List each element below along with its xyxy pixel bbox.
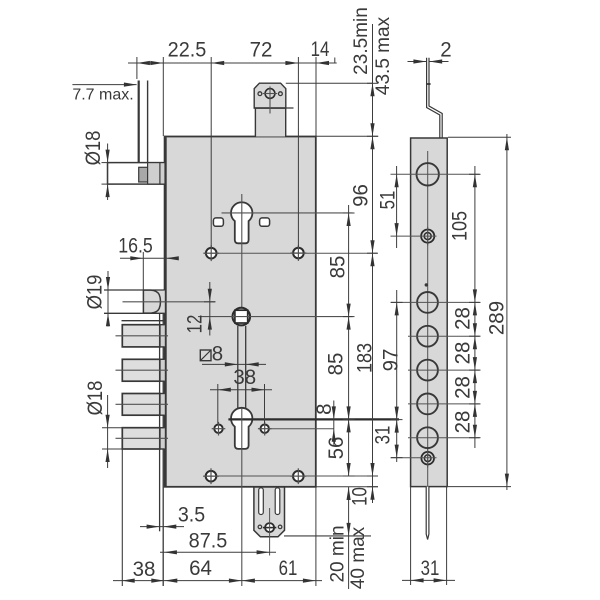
dimension chain 105/28x4 <box>474 166 476 448</box>
svg-text:183: 183 <box>353 343 377 373</box>
dimension 2 (strip) <box>408 61 427 63</box>
latch bolt stem (top) <box>255 108 285 137</box>
latch D-bolt centerline <box>123 301 216 303</box>
svg-text:16.5: 16.5 <box>118 234 153 258</box>
faceplate bolt hole circle 3 <box>417 360 438 381</box>
keyhole vertical centerline (upper) <box>241 194 243 326</box>
dimension 51 <box>396 166 398 248</box>
extension lines faceplate width <box>410 487 412 585</box>
deadbolt 2 <box>160 359 165 381</box>
dimension chain 85/85/56 <box>348 205 350 476</box>
svg-text:31: 31 <box>421 556 440 580</box>
follower horizontal centerline <box>198 316 353 318</box>
svg-text:28: 28 <box>451 342 475 365</box>
dimension square-8 spindle channel <box>202 363 266 365</box>
faceplate top circle (latch cylinder hole) <box>417 163 439 185</box>
follower square-hole (8mm) circle <box>233 308 251 326</box>
lower ring screw centerline <box>391 457 437 459</box>
dimension 12 <box>209 282 211 336</box>
upper keyhole horizontal centerline <box>222 212 353 214</box>
lower screws extension to 8-dim <box>269 428 334 430</box>
faceplate bolt hole circle 4 <box>417 394 438 415</box>
faceplate vertical centerline <box>427 151 429 486</box>
extension line screws left (72) <box>210 57 212 247</box>
escutcheon bar edge line (inner, top-left) <box>147 81 149 163</box>
dimension 3.5 <box>140 526 184 528</box>
svg-text:87.5: 87.5 <box>189 529 228 553</box>
bolt hole top edge line <box>122 320 165 322</box>
faceplate edge lines between bolts (x=159.6) <box>159 313 161 324</box>
square spindle pin below faceplate <box>426 487 429 540</box>
svg-text:7.7 max.: 7.7 max. <box>72 87 133 104</box>
lower cylinder screw left <box>214 425 222 433</box>
svg-text:31: 31 <box>371 426 395 445</box>
svg-text:20 min: 20 min <box>328 525 349 582</box>
latch head top extension line <box>286 82 373 84</box>
bent strip at top of faceplate <box>427 58 440 138</box>
deadbolt 3 <box>160 394 165 416</box>
svg-text:28: 28 <box>451 307 475 330</box>
extension lines 38 mid <box>217 384 219 424</box>
door thickness reference line (20min/40max) <box>284 535 371 537</box>
latch D-bolt cutout band <box>143 290 164 313</box>
extension line for 22.5 right (body left edge) <box>162 57 164 136</box>
svg-text:38: 38 <box>133 557 156 581</box>
faceplate bottom extension line <box>448 486 511 488</box>
svg-text:8: 8 <box>212 342 223 366</box>
body bottom extension line <box>316 486 378 488</box>
small pin dot <box>425 283 428 286</box>
svg-text:23.5min: 23.5min <box>351 7 372 75</box>
top cylinder boss Ø18 (outer white part) <box>108 163 166 185</box>
deadbolt 2 centerline <box>116 369 169 371</box>
svg-text:40 max: 40 max <box>348 526 369 589</box>
dimension 8 (lever offset) <box>333 401 335 445</box>
keyhole vertical centerline (lower) <box>241 408 243 586</box>
svg-text:72: 72 <box>250 38 273 62</box>
follower square <box>235 310 248 323</box>
svg-text:28: 28 <box>451 411 475 434</box>
upper screws centerline <box>204 252 377 254</box>
lower cylinder screw right <box>261 425 269 433</box>
tail small hole left <box>258 525 262 529</box>
faceplate bolt hole circle 1 <box>417 292 438 313</box>
latch head small hole left <box>258 92 262 96</box>
tail slot right <box>275 488 280 515</box>
dimension Ø19 latch bolt <box>107 271 109 327</box>
dimension Ø18 top cylinder <box>107 144 109 201</box>
svg-text:43.5 max: 43.5 max <box>373 16 394 95</box>
dimension 31 bottom <box>402 579 455 581</box>
svg-text:Ø18: Ø18 <box>83 381 107 416</box>
bottom tail plate <box>254 487 285 537</box>
dimension chain 43.5/96/183/10 <box>372 24 374 503</box>
escutcheon bar edge line (outer, top-left) <box>138 81 140 163</box>
top cylinder boss dark middle block <box>139 167 148 182</box>
dimension 16.5 <box>120 257 178 259</box>
dimension Ø18 deadbolt <box>107 395 109 468</box>
svg-text:105: 105 <box>448 211 472 241</box>
faceplate top extension line <box>448 136 511 138</box>
svg-text:64: 64 <box>189 556 212 580</box>
dimension 38 mid <box>210 389 272 391</box>
faceplate edge lines between bolts (x=163.2) <box>162 313 164 324</box>
svg-text:14: 14 <box>311 37 330 61</box>
svg-text:38: 38 <box>233 365 256 389</box>
svg-text:56: 56 <box>324 437 348 460</box>
svg-text:61: 61 <box>279 556 298 580</box>
svg-text:12: 12 <box>183 315 207 334</box>
extension line body right edge bottom <box>315 487 317 586</box>
svg-text:3.5: 3.5 <box>178 503 205 527</box>
lower keyhole thick lever bar <box>228 418 399 420</box>
spindle channel lines <box>237 326 239 408</box>
latch head small hole right <box>279 92 283 96</box>
tick at 14 dimension tail <box>334 58 336 64</box>
lower fixing screw left <box>206 471 217 482</box>
dimension 289 <box>506 134 508 490</box>
svg-text:8: 8 <box>312 403 336 414</box>
faceplate bolt hole circle 2 <box>417 326 438 347</box>
dimension chain 97/31 <box>396 290 398 462</box>
svg-text:96: 96 <box>349 184 373 207</box>
lock body plate <box>165 137 316 487</box>
upper fixing screw left <box>206 248 217 259</box>
top cylinder boss gray inner block <box>148 163 165 185</box>
svg-text:85: 85 <box>326 256 350 279</box>
svg-text:Ø19: Ø19 <box>83 275 107 310</box>
svg-text:289: 289 <box>485 301 509 335</box>
dimension 87.5 <box>160 551 276 553</box>
extension line for 22.5 left (escutcheon) <box>136 57 138 79</box>
latch D-bolt (half-round) <box>143 290 160 313</box>
lower screws centerline <box>204 475 377 477</box>
deadbolt 1 centerline <box>116 335 169 337</box>
faceplate (right view) <box>411 138 448 487</box>
faceplate lower ring screw hole <box>421 452 434 465</box>
lower fixing screw right <box>293 471 304 482</box>
label square-8 symbol <box>200 350 211 361</box>
tail small hole right <box>278 525 282 529</box>
svg-text:2: 2 <box>440 38 451 62</box>
svg-text:10: 10 <box>348 487 372 506</box>
small rounded hole right of upper keyhole <box>260 218 270 226</box>
dimension chain 38/64/61 <box>113 580 322 582</box>
body top extension line <box>316 135 378 137</box>
svg-text:Ø18: Ø18 <box>81 131 105 166</box>
faceplate bolt hole circle 5 <box>417 427 438 448</box>
faceplate top circle centerline <box>391 173 480 175</box>
svg-text:97: 97 <box>379 349 403 372</box>
lower euro cylinder keyhole <box>231 408 252 449</box>
upper euro cylinder keyhole <box>231 202 252 243</box>
latch head screw with cross <box>265 89 275 99</box>
deadbolt 4 <box>160 428 165 449</box>
bolt tips extension line (x=122) <box>121 449 123 586</box>
tail centerline <box>269 508 271 556</box>
leader 7.7 max <box>72 84 136 86</box>
extension line body right edge (14) <box>315 57 317 136</box>
deadbolt 4 centerline <box>116 437 169 439</box>
upper fixing screw right <box>293 248 304 259</box>
svg-text:28: 28 <box>451 376 475 399</box>
tail slot left <box>259 488 264 515</box>
deadbolt 3 centerline <box>116 403 169 405</box>
deadbolt 1 <box>160 325 165 347</box>
dimension 20min/40max <box>348 487 350 589</box>
latch bolt head (top) <box>254 83 286 108</box>
svg-text:51: 51 <box>376 191 400 210</box>
svg-text:85: 85 <box>324 353 348 376</box>
svg-text:22.5: 22.5 <box>168 38 207 62</box>
dimension line 22.5/72/14 <box>128 62 337 64</box>
faceplate upper ring screw hole <box>421 230 434 243</box>
upper ring screw centerline <box>391 235 437 237</box>
small rounded hole left of upper keyhole <box>213 218 223 226</box>
tail screw <box>265 523 274 532</box>
extension line screws right (72/14) <box>297 57 299 247</box>
